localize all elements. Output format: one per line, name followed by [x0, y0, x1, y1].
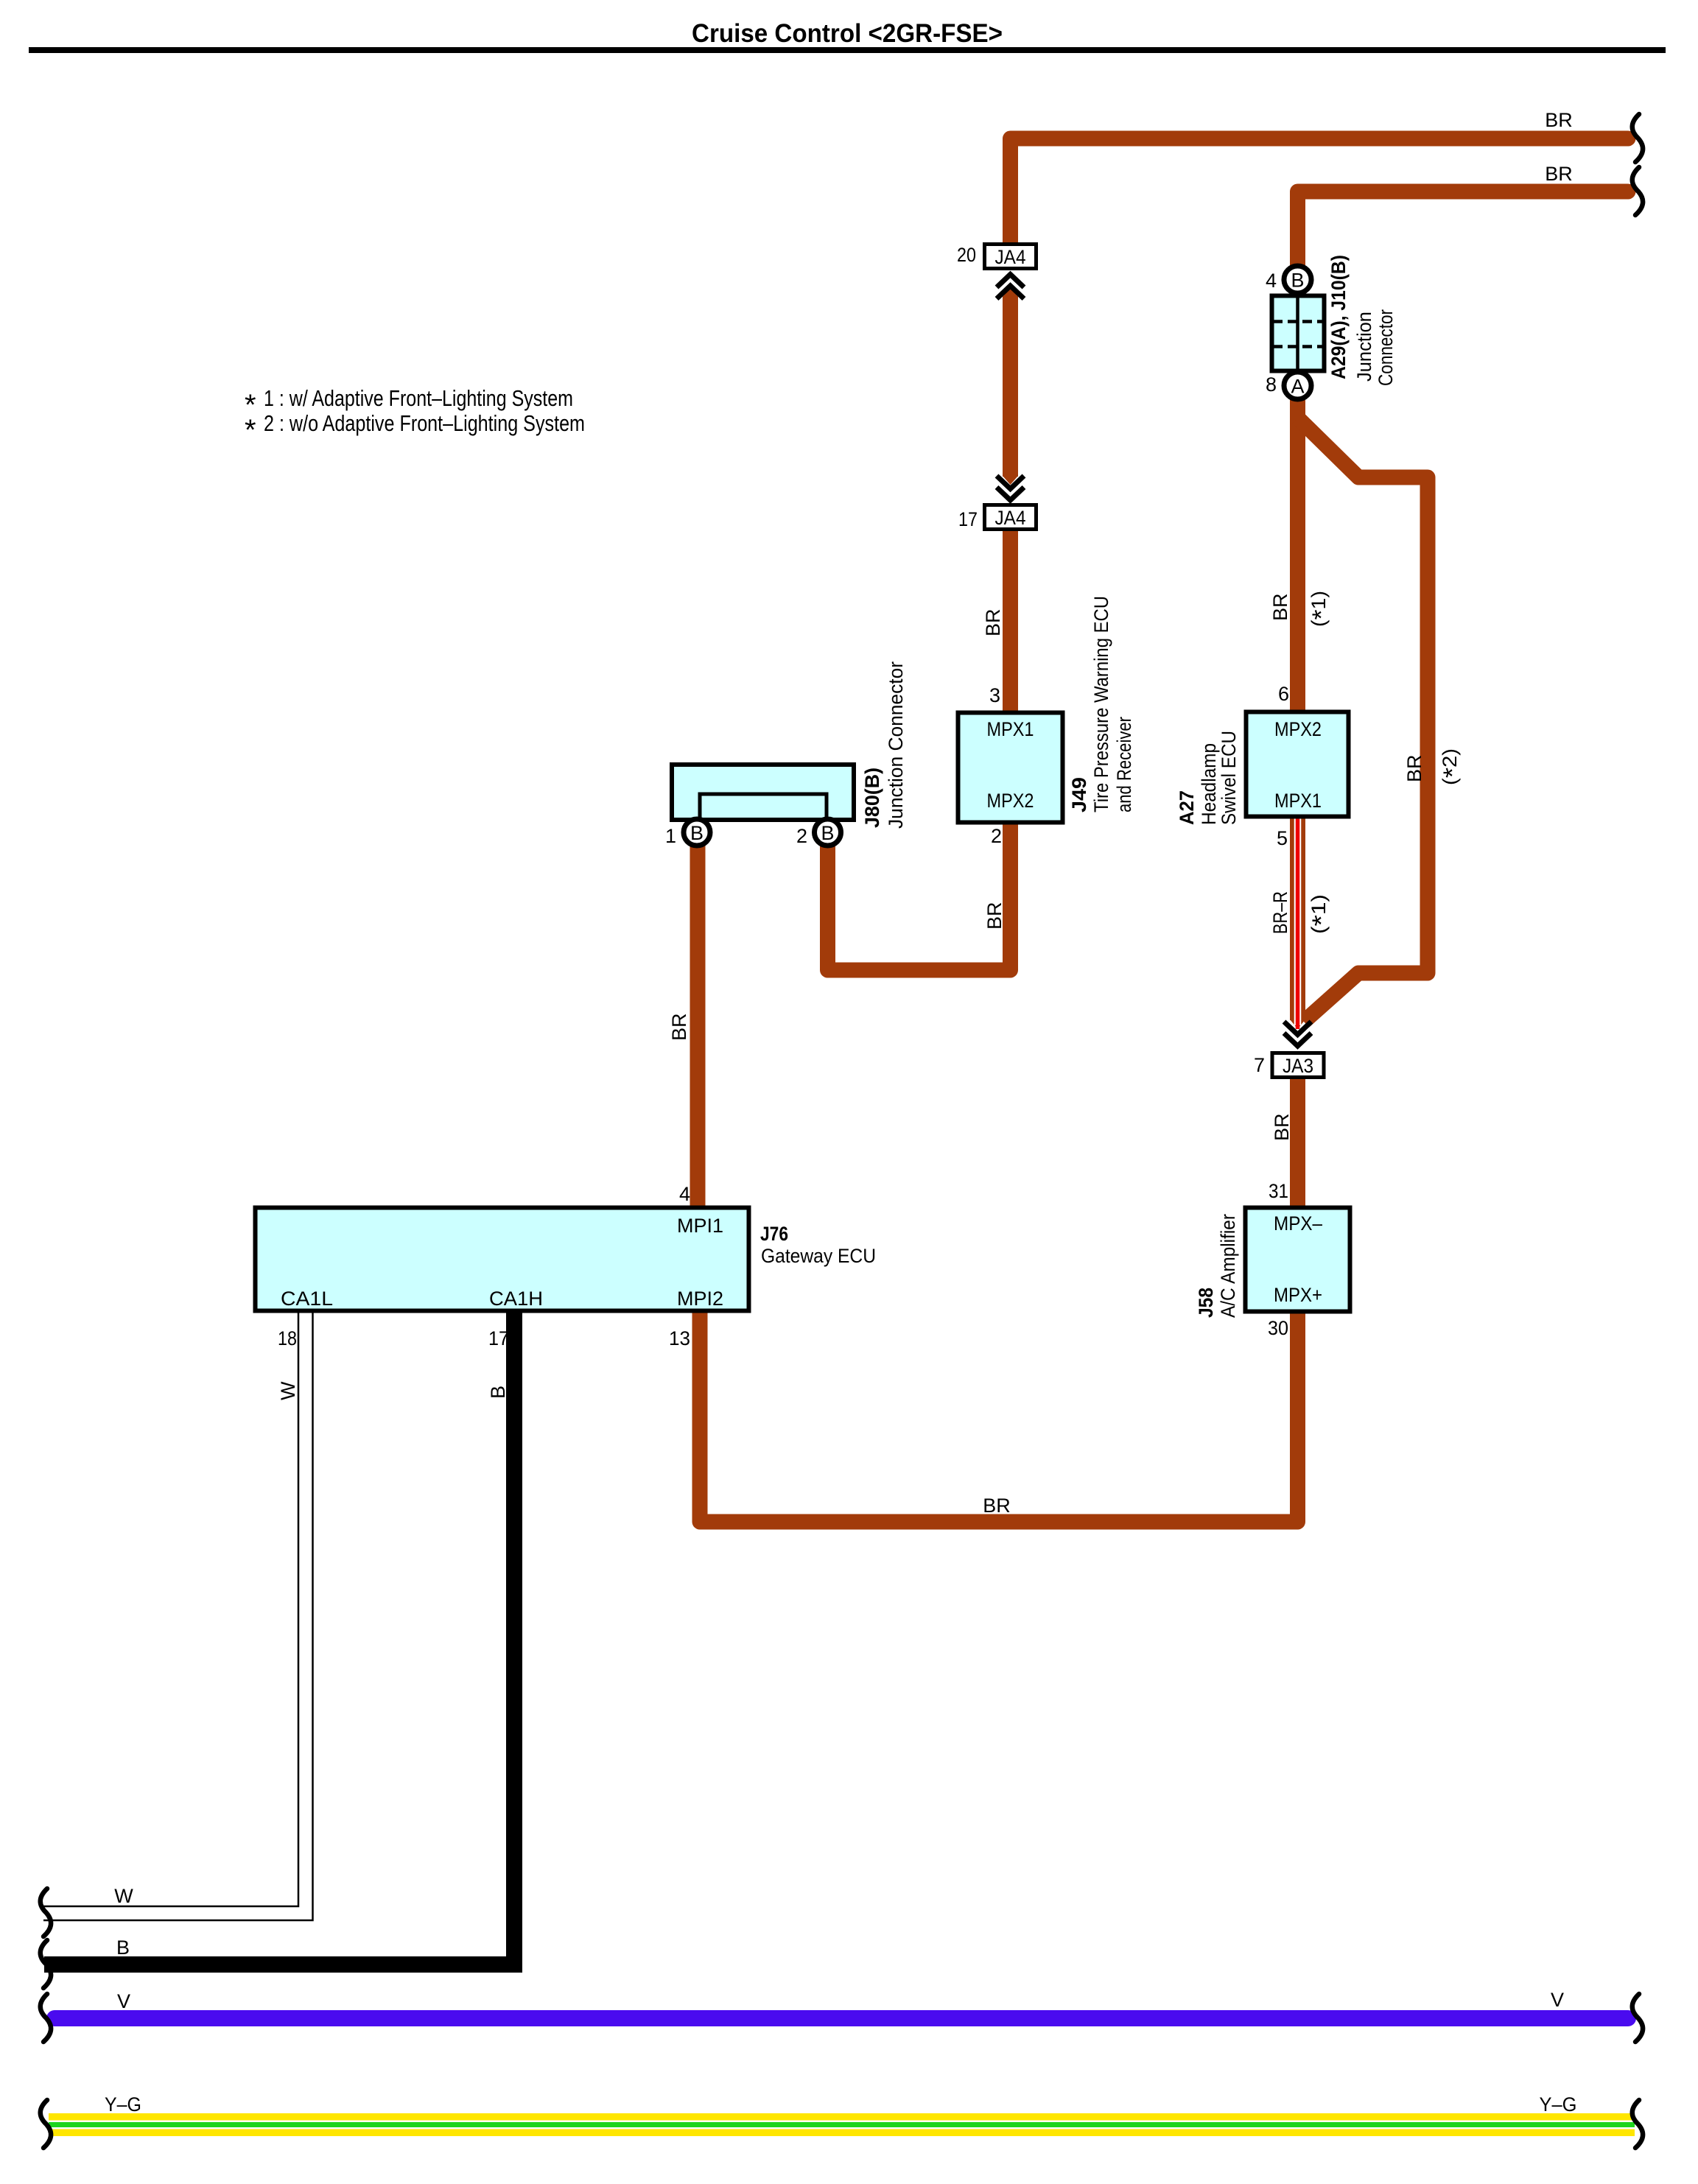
break symbol left W	[41, 1889, 51, 1937]
wire BR-R A27 MPX1 pin 5 to JA3 (striped)	[1290, 816, 1305, 1020]
svg-text:MPI2: MPI2	[677, 1288, 723, 1310]
svg-text:5: 5	[1277, 827, 1288, 849]
svg-text:W: W	[114, 1885, 133, 1907]
svg-text:CA1L: CA1L	[281, 1288, 333, 1310]
ECU box J76 Gateway ECU	[256, 1208, 749, 1311]
break symbol left Y-G	[41, 2100, 51, 2148]
svg-text:BR: BR	[1545, 163, 1573, 185]
svg-text:Junction Connector: Junction Connector	[885, 661, 907, 829]
wire Y-G (yellow-green striped)	[49, 2113, 1635, 2121]
svg-text:JA4: JA4	[995, 246, 1026, 268]
svg-text:B: B	[1291, 270, 1304, 292]
svg-text:BR: BR	[982, 608, 1004, 636]
break symbol right wire 2	[1632, 167, 1643, 215]
svg-text:Y–G: Y–G	[105, 2093, 141, 2115]
svg-text:20: 20	[957, 244, 976, 266]
wire BR junction A to A27 pin 6	[1290, 399, 1305, 714]
svg-text:Gateway ECU: Gateway ECU	[761, 1245, 876, 1267]
svg-text:8: 8	[1266, 373, 1277, 396]
wire V (violet)	[55, 2010, 1628, 2026]
svg-text:MPX–: MPX–	[1274, 1212, 1322, 1235]
svg-text:JA3: JA3	[1283, 1055, 1313, 1077]
svg-text:(*1): (*1)	[1308, 894, 1336, 934]
wire BR J49 MPX2 pin 2 to J80 pin 2	[828, 821, 1011, 970]
wire BR top 1 (JA4 20 to right break)	[1011, 138, 1629, 243]
svg-text:B: B	[487, 1386, 509, 1399]
svg-text:A27: A27	[1176, 790, 1198, 825]
break symbol left V	[41, 1994, 51, 2042]
wire BR J80 pin 1 to J76 MPI1 pin 4	[690, 843, 706, 1208]
svg-text:4: 4	[1266, 270, 1277, 292]
wire BR JA4 20 to JA4 17 (with arrow tips)	[1003, 296, 1018, 477]
chevron arrows above JA3	[1284, 1022, 1311, 1035]
svg-text:MPI1: MPI1	[677, 1215, 723, 1237]
svg-text:1 : w/ Adaptive Front–Lighting: 1 : w/ Adaptive Front–Lighting System	[264, 385, 573, 411]
connector JA4 pin 20 box	[985, 245, 1036, 269]
break symbol right V	[1632, 1994, 1643, 2042]
svg-text:A29(A), J10(B): A29(A), J10(B)	[1327, 255, 1350, 379]
svg-text:17: 17	[958, 508, 978, 530]
svg-text:BR: BR	[1403, 754, 1425, 782]
svg-text:Headlamp: Headlamp	[1198, 743, 1220, 825]
svg-text:Junction: Junction	[1353, 312, 1375, 382]
chevron arrows below JA4 20	[997, 275, 1024, 288]
svg-text:J49: J49	[1068, 777, 1090, 812]
ECU box A27 Headlamp Swivel ECU	[1246, 712, 1349, 817]
title rule	[29, 47, 1666, 53]
svg-text:B: B	[116, 1937, 130, 1959]
svg-text:J76: J76	[760, 1223, 788, 1245]
junction connector J80(B) pin 1 circle	[684, 819, 710, 846]
break symbol right wire 1	[1632, 114, 1643, 162]
svg-text:B: B	[690, 822, 704, 844]
svg-text:MPX+: MPX+	[1274, 1284, 1322, 1306]
svg-text:MPX2: MPX2	[987, 790, 1034, 812]
svg-text:JA4: JA4	[995, 507, 1026, 529]
svg-text:Tire Pressure Warning ECU: Tire Pressure Warning ECU	[1090, 596, 1112, 812]
svg-text:J80(B): J80(B)	[861, 768, 883, 828]
svg-text:and Receiver: and Receiver	[1113, 717, 1135, 812]
junction connector J80(B) pin 2 circle	[815, 819, 841, 846]
svg-text:17: 17	[488, 1327, 509, 1349]
svg-text:BR: BR	[983, 1495, 1011, 1517]
svg-text:31: 31	[1269, 1180, 1288, 1202]
svg-text:1: 1	[665, 825, 676, 847]
svg-text:(*2): (*2)	[1439, 748, 1467, 785]
junction connector A29(A),J10(B) pin B circle	[1284, 266, 1311, 293]
wire BR top 2 (junction connector B to right break)	[1298, 192, 1629, 267]
svg-text:13: 13	[669, 1327, 690, 1349]
svg-text:BR: BR	[1271, 1113, 1293, 1141]
svg-text:BR: BR	[1545, 109, 1573, 131]
svg-text:BR: BR	[668, 1013, 690, 1041]
svg-text:Connector: Connector	[1375, 309, 1397, 386]
connector JA4 pin 17 box	[985, 505, 1036, 530]
svg-text:(*1): (*1)	[1308, 591, 1336, 627]
ECU box J58 A/C Amplifier	[1246, 1208, 1350, 1312]
svg-text:Y–G: Y–G	[1540, 2093, 1577, 2115]
svg-text:MPX1: MPX1	[987, 718, 1034, 740]
svg-text:3: 3	[989, 684, 1000, 706]
svg-text:B: B	[821, 822, 834, 844]
junction connector J80(B) body	[672, 765, 854, 820]
wire BR (*2) bypass around A27	[1298, 418, 1428, 1022]
wire BR J58 MPX+ pin 30 to J76 MPI2 pin 13	[700, 1311, 1298, 1522]
break symbol left B	[41, 1940, 51, 1988]
ECU box J49 Tire Pressure Warning ECU and Receiver	[958, 713, 1063, 823]
svg-text:CA1H: CA1H	[489, 1288, 543, 1310]
svg-text:4: 4	[679, 1183, 690, 1205]
svg-text:6: 6	[1278, 683, 1289, 705]
connector JA3 pin 7 box	[1272, 1053, 1324, 1078]
wire B (black) J76 CA1H pin 17 to left break	[44, 1311, 514, 1964]
svg-text:W: W	[277, 1381, 299, 1400]
junction connector A29(A),J10(B) pin A circle	[1284, 372, 1311, 399]
svg-text:V: V	[117, 1990, 130, 2012]
svg-text:30: 30	[1268, 1317, 1288, 1339]
wire BR JA4 17 to J49 MPX1 pin 3	[1003, 531, 1018, 714]
svg-text:J58: J58	[1195, 1288, 1217, 1318]
svg-text:BR: BR	[983, 902, 1006, 930]
svg-text:*: *	[245, 414, 256, 446]
wire W (white, drawn as two outline lines) J76 CA1L pin 18 to left break	[43, 1311, 298, 1906]
svg-text:MPX2: MPX2	[1274, 718, 1322, 740]
junction connector A29(A),J10(B) body	[1272, 296, 1325, 371]
svg-text:MPX1: MPX1	[1274, 790, 1322, 812]
svg-text:18: 18	[278, 1327, 297, 1349]
chevron arrows above JA4 17	[997, 476, 1024, 489]
svg-text:7: 7	[1254, 1054, 1265, 1076]
svg-text:A/C Amplifier: A/C Amplifier	[1217, 1214, 1239, 1318]
break symbol right Y-G	[1632, 2100, 1643, 2148]
svg-text:Swivel ECU: Swivel ECU	[1218, 731, 1240, 825]
svg-text:Cruise Control <2GR-FSE>: Cruise Control <2GR-FSE>	[692, 19, 1003, 48]
svg-text:2: 2	[991, 825, 1002, 847]
wire BR JA3 to J58 MPX- pin 31	[1290, 1078, 1305, 1209]
svg-text:A: A	[1291, 376, 1304, 398]
svg-text:BR: BR	[1269, 593, 1291, 621]
svg-text:2: 2	[796, 825, 807, 847]
svg-text:2 : w/o Adaptive Front–Lightin: 2 : w/o Adaptive Front–Lighting System	[264, 410, 585, 436]
svg-text:V: V	[1551, 1989, 1564, 2011]
svg-text:BR–R: BR–R	[1269, 891, 1291, 934]
